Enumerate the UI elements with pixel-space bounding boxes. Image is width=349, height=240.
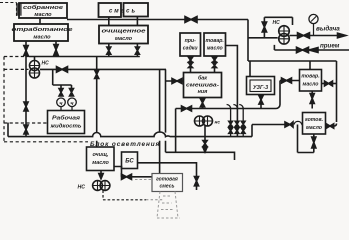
box: очищенное масло: [99, 26, 148, 44]
pump P3: [93, 181, 103, 191]
svg-text:масло: масло: [34, 12, 52, 18]
svg-text:смешива-: смешива-: [186, 82, 219, 88]
bypass loop with valve: [264, 17, 292, 38]
svg-text:НС: НС: [42, 61, 50, 67]
svg-text:очищенное: очищенное: [102, 29, 146, 35]
double valve on drop line 3: [241, 121, 245, 133]
dashed feed into Рабочая жидкость: [4, 122, 48, 124]
box: УЗГ-3: [247, 77, 275, 95]
box: Рабочая жидкость: [48, 111, 85, 134]
выдача line: [289, 35, 338, 37]
svg-text:садки: садки: [183, 46, 199, 52]
dashed bottom border: [4, 141, 88, 143]
svg-text:масло: масло: [207, 46, 223, 52]
P3 bottom out: [103, 190, 146, 199]
готов масло right valve: [326, 124, 337, 127]
verticals x159.6 / x165.5: [159, 69, 161, 173]
valve on pump line: [57, 67, 68, 73]
box: БС: [122, 152, 138, 169]
valve on L1: [185, 17, 197, 23]
box: готов масло: [303, 113, 326, 135]
valve on y108.5: [182, 106, 192, 111]
wire: top long line L1: [67, 19, 248, 21]
dashed feed to P2: [4, 68, 29, 70]
прием line: [274, 45, 349, 50]
horizontal y108.5: [176, 105, 280, 109]
box: собранное масло: [16, 3, 22, 16]
svg-text:масло: масло: [33, 35, 51, 41]
P4 bottom drain: valve + arrow: [204, 126, 206, 148]
svg-text:бак: бак: [198, 75, 207, 82]
wire: manifold to Ч circles: [53, 69, 72, 88]
dashed left border: [3, 57, 5, 142]
wire: B1 to B2: [39, 18, 41, 24]
dashed corner at top-left: [0, 3, 17, 19]
готов масло bottom U loop: [298, 125, 314, 153]
svg-text:товар.: товар.: [301, 74, 319, 80]
top-right corner plumbing: [248, 20, 278, 62]
wire: pump line y69.4: [40, 68, 166, 70]
товар R left feed: [280, 81, 300, 105]
УЗГ bottom valve: [260, 95, 262, 109]
svg-text:прием: прием: [320, 43, 340, 50]
svg-text:смесь: смесь: [159, 184, 174, 190]
бак feed line: [166, 80, 184, 82]
svg-text:нс: нс: [215, 121, 221, 126]
svg-text:Рабочая: Рабочая: [52, 114, 81, 121]
svg-text:УЗГ-3: УЗГ-3: [253, 85, 268, 91]
svg-text:масло: масло: [303, 81, 319, 87]
wires: смесь boxes down через L1 to очищенное масло: [109, 17, 138, 26]
svg-text:готовая: готовая: [156, 177, 178, 183]
БС right line down with valve: [138, 163, 197, 176]
svg-text:НС: НС: [273, 20, 281, 26]
double valve on drop line 2: [235, 121, 239, 133]
бак bottom valve: [202, 98, 204, 109]
pump P1: [279, 26, 290, 37]
svg-text:БС: БС: [125, 159, 134, 165]
svg-text:НС: НС: [78, 185, 86, 191]
svg-text:выдача: выдача: [316, 25, 340, 33]
Ч circle 1: [57, 98, 66, 107]
товар R bottom valve: [311, 91, 313, 109]
svg-text:очищ,: очищ,: [93, 152, 110, 158]
boxes: при-садки / товар масло: [180, 33, 201, 56]
очищ масло right path to БС line: [114, 167, 152, 177]
готов масло feed line y124.5: [252, 125, 303, 137]
vertical x96.7 from collector to очищ масло: [96, 57, 98, 148]
Ч circle 2: [68, 98, 77, 107]
box: очищ масло (bottom-left): [87, 147, 115, 171]
svg-text:жидкость: жидкость: [49, 123, 81, 129]
long line y136.6 with humps: [8, 132, 252, 137]
svg-text:отработанное: отработанное: [12, 26, 74, 33]
товар R right to vertical: [322, 83, 337, 85]
arrow from очищ масло into pump P3: [100, 171, 102, 178]
svg-text:масло: масло: [306, 125, 322, 131]
valve V3 below очищенное масло (left): [108, 44, 110, 57]
pump P4: [195, 116, 205, 126]
svg-text:собранное: собранное: [23, 4, 63, 11]
faint dashed legs below готовая смесь: [135, 180, 180, 219]
vertical from товар масло to drops: [226, 46, 238, 137]
svg-text:ния: ния: [198, 89, 209, 95]
box: товар масло (right): [300, 70, 322, 92]
valve below товар масло (left box): [214, 56, 216, 73]
box: бак смешивания: [184, 73, 222, 98]
svg-text:масло: масло: [115, 36, 133, 42]
svg-text:готов.: готов.: [305, 117, 323, 123]
svg-text:смесь: смесь: [109, 8, 137, 14]
pump НС left (P2): [34, 57, 36, 61]
valve V1 below отработанное масло (left): [25, 41, 27, 57]
box: готовая смесь (faint): [152, 174, 183, 192]
svg-text:масло: масло: [92, 160, 109, 166]
boxes: смесь (two): [99, 3, 122, 17]
long vertical x26 with two valves: [25, 57, 27, 137]
valve below при-садки: [190, 56, 192, 73]
gauge: [309, 14, 318, 23]
box: отработанное масло: [14, 24, 68, 41]
svg-text:при-: при-: [185, 38, 197, 44]
valve V4 below очищенное масло (right): [136, 44, 138, 57]
valve V2 below отработанное масло (right): [55, 41, 57, 57]
wire: collector line y56.5: [4, 56, 29, 58]
svg-text:товар.: товар.: [206, 38, 224, 44]
horizontal y152.3: [166, 152, 235, 160]
double valve on drop line 1: [229, 121, 233, 133]
